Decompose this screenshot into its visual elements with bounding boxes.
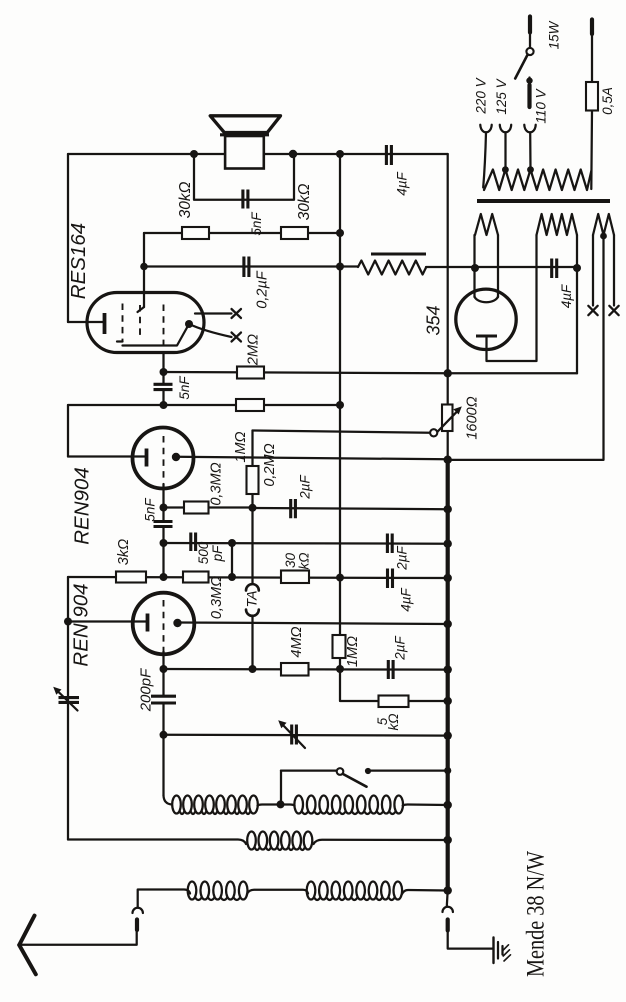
tube REN904-1 grid dashed	[163, 600, 165, 650]
wire 354 filament left leg	[473, 235, 475, 297]
node 2M row bus	[444, 369, 452, 377]
wire tuning row y735	[164, 734, 448, 737]
wire speaker transformer loop	[194, 154, 294, 200]
wire row3b exit	[402, 890, 448, 894]
svg-text:30kΩ: 30kΩ	[177, 181, 194, 218]
svg-text:0,5A: 0,5A	[600, 87, 615, 115]
transformer core	[477, 199, 610, 203]
capacitor 2uF low	[388, 660, 393, 679]
wire row3 antenna coil lead	[138, 890, 190, 908]
node 500pF row bus	[444, 540, 452, 548]
capacitor 500pF	[191, 533, 196, 552]
wire grid chain x163.5 to 500pF row	[162, 527, 164, 577]
svg-text:200pF: 200pF	[138, 668, 155, 712]
svg-text:4µF: 4µF	[559, 284, 574, 308]
node row577 bus	[444, 574, 452, 582]
wire 500pF row y543	[164, 542, 448, 545]
capacitor 4uF PSU	[552, 259, 557, 279]
wire switch row left y770.6	[281, 769, 337, 771]
wire REN904-2 anode row y457	[176, 457, 448, 460]
wire 2uF row y508.5	[253, 508, 448, 509]
pin earth plug	[446, 920, 450, 931]
tube REN904-1 cathode	[146, 614, 150, 632]
switch wave lever	[343, 774, 367, 787]
svg-text:pF: pF	[210, 545, 225, 563]
wire REN904-2 cathode lead	[68, 455, 146, 457]
pin fuse top	[590, 20, 594, 35]
transformer secondary b (HT)	[537, 214, 578, 235]
wire x232 vertical	[231, 543, 233, 577]
node row669 x340	[336, 665, 344, 673]
capacitor 4uF mid	[388, 569, 393, 589]
svg-text:354: 354	[424, 305, 444, 335]
svg-text:0,2µF: 0,2µF	[255, 270, 271, 309]
tube 354 plate bar	[476, 334, 497, 337]
transformer secondary a (354 filament)	[475, 214, 498, 235]
node coil row1 bus	[444, 801, 452, 809]
ground symbol	[494, 938, 511, 964]
svg-text:4MΩ: 4MΩ	[289, 626, 305, 657]
capacitor 200pF	[151, 696, 176, 703]
node coil row3 bus	[444, 886, 452, 894]
tube 354 envelope	[456, 289, 516, 349]
pin mains switch plug	[528, 17, 532, 33]
node 5k row bus	[444, 697, 452, 705]
x-mark lead1	[232, 309, 242, 318]
resistor 0,3M lower	[183, 572, 209, 583]
switch wave contact dot	[365, 768, 371, 774]
svg-text:kΩ: kΩ	[297, 552, 312, 569]
svg-text:2MΩ: 2MΩ	[246, 334, 262, 366]
node switch row bus	[444, 767, 451, 774]
svg-text:2µF: 2µF	[395, 545, 410, 570]
resistor 1M grid	[236, 399, 264, 411]
wire 5nF to rows	[162, 353, 164, 406]
node coil row2 bus	[444, 836, 452, 844]
wire switch stem	[529, 33, 531, 48]
node coil row1 tap	[277, 800, 285, 808]
jack earth socket arc	[443, 907, 453, 912]
svg-text:3kΩ: 3kΩ	[116, 539, 132, 565]
capacitor 2uF anode	[291, 499, 296, 518]
wire 354 filament right leg	[497, 235, 499, 297]
coil row1a	[172, 796, 258, 815]
wire vertical rail x340	[339, 154, 341, 669]
tube 354 filament	[475, 297, 499, 303]
tube RES164 grid2 dashed	[139, 305, 141, 336]
switch mains lever	[515, 55, 527, 79]
wire left rail C	[67, 577, 69, 840]
node row405 x163	[160, 401, 168, 409]
node 2M row left	[160, 368, 168, 376]
speaker box	[225, 136, 264, 169]
svg-text:15W: 15W	[547, 20, 562, 49]
node RES164 internal junction	[185, 320, 193, 328]
node 0,2M bottom	[249, 504, 257, 512]
wire top B+ row y154	[68, 153, 448, 155]
wire 3k row y577	[68, 577, 448, 578]
wire fuse upper	[591, 34, 593, 82]
terminal TA arcs	[246, 584, 259, 616]
wire 125V tap lead	[504, 133, 506, 170]
wire switch row right	[371, 769, 448, 771]
capacitor 5nF grid RES164	[154, 384, 173, 389]
node 500pF row left	[160, 539, 168, 547]
svg-text:0,3MΩ: 0,3MΩ	[209, 462, 225, 505]
wire 110V tap stub upper	[528, 78, 530, 86]
tube REN904-2 cathode	[145, 449, 149, 467]
capacitor 0,2uF	[244, 257, 249, 278]
wire 220V tap lead	[483, 133, 486, 188]
resistor 30k right	[281, 227, 308, 239]
svg-text:0,3MΩ: 0,3MΩ	[209, 576, 225, 619]
coil row3b	[307, 882, 402, 901]
x-mark lead2	[232, 333, 242, 342]
coil row1b	[294, 796, 403, 815]
node speaker right	[289, 150, 297, 158]
socket 125V	[500, 125, 511, 133]
svg-text:0,2MΩ: 0,2MΩ	[262, 443, 278, 486]
node row405 x340	[336, 401, 344, 409]
transformer secondary c (heaters)	[593, 214, 614, 235]
svg-text:220 V: 220 V	[474, 76, 489, 114]
node 30k row x340	[336, 229, 344, 237]
svg-text:kΩ: kΩ	[386, 713, 401, 730]
node 125V tap	[502, 166, 509, 173]
svg-text:110 V: 110 V	[534, 87, 549, 123]
wire earth lead	[448, 931, 493, 949]
wire x252 vertical upper	[251, 431, 253, 583]
wire HT winding right leg x577	[576, 235, 578, 373]
node grid2 0,3M	[160, 504, 168, 512]
wire RES164 heater winding legs	[593, 235, 614, 306]
wire bus x447.7 thick	[446, 460, 450, 891]
wire 30k row y233	[144, 232, 340, 234]
tube REN904-2 grid dashed	[163, 436, 165, 482]
wire heater CT x602.5	[448, 236, 604, 460]
resistor 30k left	[182, 227, 209, 239]
coil row3a	[188, 882, 248, 901]
svg-text:1MΩ: 1MΩ	[345, 636, 361, 667]
capacitor 4uF top	[386, 145, 391, 165]
svg-text:5nF: 5nF	[177, 376, 192, 400]
x-mark heater winding left	[588, 306, 597, 315]
node row669 bus	[444, 665, 452, 673]
svg-text:4µF: 4µF	[395, 171, 410, 195]
svg-text:RES164: RES164	[67, 223, 90, 299]
wire x281 vertical to coil	[280, 771, 282, 805]
wire REN904-2 grid bottom lead to 5nF	[162, 484, 164, 521]
node 110V stub top	[526, 77, 532, 83]
wire bus to earth jack	[446, 891, 449, 907]
wire coil row1 link	[258, 805, 295, 806]
node heater winding CT	[600, 233, 607, 240]
capacitor 5nF grid REN904-2	[154, 522, 173, 527]
capacitor 2uF mid	[387, 534, 392, 554]
wire 2M row y372.5	[164, 372, 448, 373]
wire antenna lead	[19, 930, 137, 945]
svg-text:REN 904: REN 904	[70, 583, 93, 666]
svg-text:30kΩ: 30kΩ	[296, 183, 313, 220]
speaker cone	[210, 116, 280, 133]
wire row2 left	[68, 840, 246, 845]
capacitor tuning variable	[278, 720, 305, 748]
wire left rail B	[67, 405, 69, 457]
node speaker left	[190, 150, 198, 158]
node row577 x232	[228, 573, 236, 581]
node bus pot bottom	[444, 456, 452, 464]
tube REN904-1 envelope	[133, 593, 195, 655]
resistor 1M vertical	[333, 635, 346, 658]
resistor field coil zigzag with bar	[358, 254, 426, 275]
antenna symbol	[19, 916, 36, 975]
potentiometer 1600 body	[442, 405, 453, 432]
x-mark heater winding right	[609, 306, 618, 315]
node anode row1 bus	[444, 620, 452, 628]
node row577 x163	[160, 573, 168, 581]
node 500pF row x232	[228, 539, 236, 547]
svg-text:TA: TA	[244, 591, 260, 608]
wire 0,2uF row y266.5	[144, 265, 340, 267]
resistor 3k	[116, 572, 146, 583]
resistor 0,2M vertical	[247, 466, 259, 494]
wire RES164 anode vertical x144	[143, 233, 145, 307]
switch mains circle	[526, 48, 533, 55]
wire x163.5 below 200pF	[162, 703, 164, 796]
capacitor 5nF speaker	[243, 190, 248, 209]
transformer primary zigzag	[484, 170, 591, 191]
pin antenna plug	[135, 920, 139, 931]
wire RES164 heater lead 2	[189, 324, 232, 337]
pin 110V plug	[527, 85, 531, 107]
wire row2 right	[314, 840, 448, 844]
wire row405	[68, 404, 340, 406]
node PSU HT return	[573, 264, 581, 272]
resistor 2M	[237, 367, 264, 379]
svg-text:2µF: 2µF	[393, 635, 408, 660]
wire 354 plate lead	[487, 235, 537, 361]
capacitor trimmer antenna	[53, 687, 79, 711]
svg-text:REN904: REN904	[71, 467, 94, 545]
coil row2	[247, 832, 312, 851]
potentiometer wiper circle	[430, 429, 437, 436]
resistor 0,3M upper	[184, 502, 209, 514]
wire REN904-1 grid bottom lead	[162, 651, 164, 696]
resistor 30k TA row	[281, 571, 309, 584]
tube REN904-2 anode dot	[172, 453, 180, 461]
wire PSU B+ row y267 right part	[340, 265, 577, 268]
fuse 0,5A body	[586, 82, 598, 111]
resistor 4M	[281, 663, 309, 676]
wire pot wiper row y431.5	[253, 431, 431, 433]
svg-text:500: 500	[196, 541, 211, 564]
wire heater return row y373	[448, 372, 577, 374]
svg-text:125 V: 125 V	[494, 77, 509, 114]
tube REN904-2 envelope	[133, 428, 194, 489]
svg-text:5nF: 5nF	[249, 212, 264, 236]
svg-text:2µF: 2µF	[298, 474, 313, 499]
node top x340	[336, 150, 344, 158]
node anode RES164 junction	[140, 263, 148, 271]
svg-text:Mende 38 N/W: Mende 38 N/W	[523, 851, 550, 977]
tube RES164 screen bracket	[123, 324, 190, 346]
wire x340 corner to 5k row y701	[340, 669, 448, 701]
tube REN904-1 anode dot	[173, 619, 181, 627]
switch wave circle	[337, 768, 344, 775]
svg-text:1MΩ: 1MΩ	[233, 431, 249, 462]
wire 0,3M row y507.5	[164, 506, 253, 508]
tube RES164 envelope	[87, 293, 204, 353]
node PSU filament tap	[471, 264, 479, 272]
jack antenna socket arc	[133, 908, 143, 913]
wire 110V lead below socket	[529, 133, 532, 170]
wire RES164 heater lead 1	[195, 312, 232, 314]
node 110V tap	[527, 166, 534, 173]
wire fuse lower	[590, 111, 593, 190]
svg-text:5nF: 5nF	[143, 498, 158, 522]
potentiometer 1600 arrow	[434, 406, 462, 435]
coil row1a entry	[164, 796, 172, 805]
wire bus x447.7 upper	[447, 154, 449, 460]
wire left rail A x68	[67, 154, 69, 322]
tube RES164 cathode	[103, 313, 107, 334]
node 0,2uF row x340	[336, 263, 344, 271]
tube RES164 anode hook	[138, 307, 145, 312]
socket 110V	[524, 125, 535, 133]
wire 4M row y669	[164, 668, 448, 671]
speaker bar	[220, 133, 269, 136]
svg-text:1600Ω: 1600Ω	[465, 396, 481, 439]
node row669 x252	[249, 665, 257, 673]
wire REN904-1 cathode lead	[68, 620, 147, 622]
node 2uF row bus	[444, 505, 452, 513]
node tuning row bus	[444, 731, 452, 739]
socket 220V	[480, 125, 491, 133]
resistor 5k	[379, 696, 409, 708]
node row577 x340	[336, 574, 344, 582]
svg-text:4µF: 4µF	[399, 587, 414, 611]
node cathode rail REN904-1	[64, 618, 72, 626]
wire row3 link	[247, 890, 308, 894]
tube RES164 grid1 tick	[117, 340, 123, 342]
node row669 x163	[160, 665, 168, 673]
tube RES164 grid3 dashed	[163, 305, 165, 353]
tube RES164 grid1 dashed	[122, 304, 124, 343]
wire RES164 cathode lead	[68, 321, 104, 323]
wire x252 vertical lower after TA	[251, 616, 253, 670]
wire coil row1b exit	[403, 805, 448, 806]
wire REN904-1 anode row y623	[178, 623, 448, 625]
node tuning row left	[160, 731, 168, 739]
